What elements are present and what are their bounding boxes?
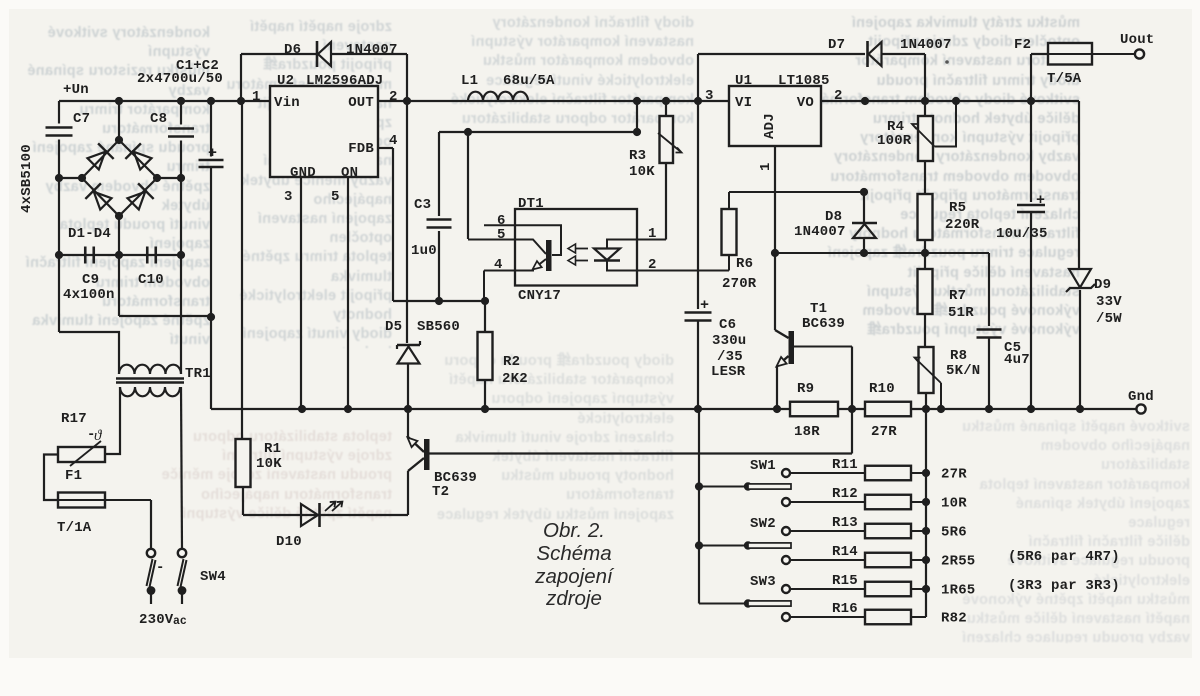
svg-text:TR1: TR1 bbox=[185, 366, 211, 382]
svg-text:U1: U1 bbox=[735, 73, 752, 89]
svg-text:SW4: SW4 bbox=[200, 569, 226, 585]
svg-text:VI: VI bbox=[735, 95, 752, 111]
svg-text:3: 3 bbox=[705, 88, 714, 104]
svg-text:SB560: SB560 bbox=[417, 319, 460, 335]
svg-text:Gnd: Gnd bbox=[1128, 389, 1154, 405]
svg-text:D7: D7 bbox=[828, 37, 845, 53]
svg-text:R13: R13 bbox=[832, 515, 858, 531]
svg-text:R14: R14 bbox=[832, 544, 858, 560]
svg-text:R2: R2 bbox=[503, 354, 520, 370]
svg-text:10K: 10K bbox=[629, 164, 655, 180]
svg-text:4: 4 bbox=[389, 133, 398, 149]
svg-text:C7: C7 bbox=[73, 111, 90, 127]
svg-text:Uout: Uout bbox=[1120, 32, 1154, 48]
svg-text:Schéma: Schéma bbox=[536, 542, 611, 565]
svg-text:2: 2 bbox=[389, 89, 398, 105]
svg-text:zdroje: zdroje bbox=[545, 587, 602, 610]
svg-text:U2: U2 bbox=[277, 73, 294, 89]
svg-text:ac: ac bbox=[173, 615, 187, 628]
svg-text:VO: VO bbox=[797, 95, 814, 111]
svg-text:+Un: +Un bbox=[63, 82, 89, 98]
svg-text:GND: GND bbox=[290, 165, 316, 181]
svg-text:5R6: 5R6 bbox=[941, 525, 967, 541]
svg-text:1u0: 1u0 bbox=[411, 243, 437, 259]
svg-text:230V: 230V bbox=[139, 612, 174, 628]
svg-text:1: 1 bbox=[758, 162, 774, 171]
svg-text:4u7: 4u7 bbox=[1004, 352, 1030, 368]
svg-text:R17: R17 bbox=[61, 411, 87, 427]
svg-text:zapojení: zapojení bbox=[534, 565, 615, 588]
svg-text:D9: D9 bbox=[1094, 277, 1111, 293]
svg-text:D10: D10 bbox=[276, 534, 302, 550]
svg-text:ADJ: ADJ bbox=[762, 113, 778, 139]
svg-text:C8: C8 bbox=[150, 111, 167, 127]
svg-text:10R: 10R bbox=[941, 496, 967, 512]
svg-text:BC639: BC639 bbox=[802, 316, 845, 332]
svg-text:SW3: SW3 bbox=[750, 574, 776, 590]
svg-text:5: 5 bbox=[497, 227, 506, 243]
svg-text:2K2: 2K2 bbox=[502, 371, 528, 387]
svg-text:/5W: /5W bbox=[1096, 311, 1122, 327]
svg-text:R9: R9 bbox=[797, 381, 814, 397]
svg-text:+: + bbox=[1036, 192, 1045, 209]
svg-text:R8: R8 bbox=[950, 348, 967, 364]
svg-text:27R: 27R bbox=[871, 424, 897, 440]
svg-text:T/5A: T/5A bbox=[1047, 71, 1082, 87]
svg-text:T2: T2 bbox=[432, 484, 449, 500]
svg-text:D5: D5 bbox=[385, 319, 402, 335]
svg-text:1: 1 bbox=[648, 226, 657, 242]
svg-text:SW1: SW1 bbox=[750, 458, 776, 474]
svg-text:F2: F2 bbox=[1014, 37, 1031, 53]
svg-text:C3: C3 bbox=[414, 197, 431, 213]
svg-text:1R65: 1R65 bbox=[941, 583, 975, 599]
svg-text:DT1: DT1 bbox=[518, 196, 544, 212]
svg-text:R16: R16 bbox=[832, 601, 858, 617]
svg-text:/35: /35 bbox=[717, 349, 743, 365]
svg-text:R7: R7 bbox=[949, 288, 966, 304]
svg-text:C9: C9 bbox=[82, 272, 99, 288]
svg-text:5K/N: 5K/N bbox=[946, 363, 980, 379]
svg-text:+: + bbox=[700, 297, 709, 314]
svg-text:Vin: Vin bbox=[274, 95, 300, 111]
svg-text:R1: R1 bbox=[264, 441, 281, 457]
svg-text:4: 4 bbox=[494, 257, 503, 273]
svg-text:FDB: FDB bbox=[348, 141, 374, 157]
svg-text:R10: R10 bbox=[869, 381, 895, 397]
svg-text:D1-D4: D1-D4 bbox=[68, 226, 111, 242]
svg-text:T/1A: T/1A bbox=[57, 520, 92, 536]
svg-text:-: - bbox=[156, 560, 165, 576]
svg-text:100R: 100R bbox=[877, 133, 912, 149]
svg-text:68u/5A: 68u/5A bbox=[503, 73, 555, 89]
svg-text:OUT: OUT bbox=[348, 95, 374, 111]
svg-text:C6: C6 bbox=[719, 317, 736, 333]
svg-text:220R: 220R bbox=[945, 217, 980, 233]
svg-text:SW2: SW2 bbox=[750, 516, 776, 532]
svg-text:4xSB5100: 4xSB5100 bbox=[19, 144, 35, 213]
svg-text:D8: D8 bbox=[825, 209, 842, 225]
svg-text:(5R6 par 4R7): (5R6 par 4R7) bbox=[1008, 549, 1120, 565]
svg-text:LT1085: LT1085 bbox=[778, 73, 830, 89]
svg-text:5: 5 bbox=[331, 189, 340, 205]
svg-text:(3R3 par 3R3): (3R3 par 3R3) bbox=[1008, 578, 1120, 594]
svg-text:R82: R82 bbox=[941, 611, 967, 627]
svg-text:C10: C10 bbox=[138, 272, 164, 288]
svg-text:330u: 330u bbox=[712, 333, 746, 349]
svg-text:1: 1 bbox=[252, 89, 261, 105]
svg-text:10K: 10K bbox=[256, 456, 282, 472]
svg-text:R11: R11 bbox=[832, 457, 858, 473]
svg-text:LESR: LESR bbox=[711, 364, 746, 380]
svg-text:4x100n: 4x100n bbox=[63, 287, 115, 303]
svg-text:R15: R15 bbox=[832, 573, 858, 589]
svg-text:R3: R3 bbox=[629, 148, 646, 164]
svg-text:Obr. 2.: Obr. 2. bbox=[543, 519, 605, 542]
svg-text:1N4007: 1N4007 bbox=[900, 37, 952, 53]
svg-text:1N4007: 1N4007 bbox=[346, 42, 398, 58]
svg-text:2: 2 bbox=[648, 257, 657, 273]
svg-text:CNY17: CNY17 bbox=[518, 288, 561, 304]
svg-text:LM2596ADJ: LM2596ADJ bbox=[306, 73, 383, 89]
svg-text:+: + bbox=[208, 145, 217, 162]
svg-text:27R: 27R bbox=[941, 467, 967, 483]
svg-text:10u/35: 10u/35 bbox=[996, 226, 1048, 242]
svg-text:R12: R12 bbox=[832, 486, 858, 502]
svg-text:F1: F1 bbox=[65, 468, 82, 484]
svg-text:33V: 33V bbox=[1096, 294, 1122, 310]
svg-text:2R55: 2R55 bbox=[941, 554, 975, 570]
svg-text:T1: T1 bbox=[810, 301, 827, 317]
svg-text:R5: R5 bbox=[949, 200, 966, 216]
svg-text:D6: D6 bbox=[284, 42, 301, 58]
svg-text:270R: 270R bbox=[722, 276, 757, 292]
svg-text:2x4700u/50: 2x4700u/50 bbox=[137, 71, 223, 87]
svg-text:ϑ: ϑ bbox=[94, 428, 103, 444]
svg-text:18R: 18R bbox=[794, 424, 820, 440]
svg-text:ON: ON bbox=[341, 165, 358, 181]
svg-text:R6: R6 bbox=[736, 256, 753, 272]
svg-text:3: 3 bbox=[284, 189, 293, 205]
svg-text:51R: 51R bbox=[948, 305, 974, 321]
svg-text:2: 2 bbox=[834, 88, 843, 104]
svg-text:1N4007: 1N4007 bbox=[794, 224, 846, 240]
svg-text:L1: L1 bbox=[461, 73, 478, 89]
